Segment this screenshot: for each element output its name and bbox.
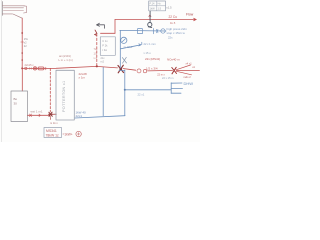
label: note near dashed riser: [94, 48, 99, 60]
legend box L2: top-right ratings table: [149, 1, 166, 11]
wire: blue riser x=124.8: [124, 70, 126, 116]
wire: DHW line y=89.8: [125, 89, 172, 91]
pump P2: blue pump circle: [121, 37, 127, 43]
node: junction dot y=63: [21, 59, 23, 61]
svg-text:x1.5: x1.5: [166, 6, 172, 10]
wire: blue drop from main x=120.3: [119, 30, 121, 68]
wire: boiler return horizontal y=115.3: [28, 114, 51, 116]
svg-text:78kW 1z: 78kW 1z: [46, 134, 59, 138]
svg-text:22x15 v: 22x15 v: [25, 63, 35, 67]
vent arrow A1: small red arrow up: [149, 15, 151, 20]
svg-text:L m + 1 (m): L m + 1 (m): [59, 58, 73, 62]
wire: cold feed diagonal from tank: [13, 14, 22, 18]
wire: boiler flow drop (red) x=22.3: [21, 68, 23, 91]
svg-text:P 2k: P 2k: [102, 44, 108, 48]
svg-text:sv 22x1: sv 22x1: [124, 45, 133, 49]
svg-text:wst 1 m1: wst 1 m1: [31, 110, 43, 114]
svg-text:x 1m: x 1m: [79, 76, 86, 80]
svg-text:P.14: P.14: [150, 2, 156, 6]
gauge G1: small circle: [76, 131, 81, 136]
valve V7: second circle: [143, 69, 146, 72]
valve V4: tick marks on return: [30, 114, 32, 117]
label: blue notes right: [167, 27, 188, 40]
valve V3: circle with cross: [33, 67, 36, 70]
svg-text:POTTERTON x1: POTTERTON x1: [62, 81, 66, 112]
wire: header down leg x=115: [114, 20, 116, 34]
label: auto air vent note (red, two rows): [59, 54, 73, 62]
wire: dashed red drop x=50.3: [49, 69, 51, 113]
node: tick y=42: [21, 41, 24, 43]
node: junction dot y=57: [21, 52, 23, 54]
wire: blue drop from flow pipe x=103: [102, 67, 104, 116]
svg-text:22 m x: 22 m x: [157, 74, 165, 77]
svg-text:m2: m2: [101, 61, 105, 64]
svg-text:x4 x1: x4 x1: [186, 61, 193, 65]
valve V9: box on cold main: [138, 29, 143, 34]
svg-text:1k.5: 1k.5: [170, 21, 176, 25]
wire: blue branch to right: [121, 45, 141, 49]
svg-text:22x: 22x: [168, 36, 173, 40]
label: radiator tail notes: [184, 61, 196, 79]
annotation: dark arrow pointer: [97, 23, 105, 28]
manifold M1: DHW fork: [171, 83, 182, 94]
svg-text:x 15 u: x 15 u: [144, 51, 152, 55]
meter M2: circle on cold main: [161, 29, 165, 33]
valve V6: motorised valve circle: [137, 69, 141, 73]
svg-text:=1kW+: =1kW+: [63, 133, 73, 137]
wire: red to radiator fork: [148, 69, 173, 72]
svg-text:DHW: DHW: [184, 81, 194, 86]
label: tiny notes under controller box: [101, 57, 106, 64]
gauge G2: dark vertical stroke and scribble under header: [148, 11, 152, 27]
wire: dashed red riser x=96.8: [96, 34, 98, 66]
cylinder C1: box: [56, 70, 74, 120]
svg-text:MS341: MS341: [46, 129, 57, 133]
valve V5: arrow on return: [38, 114, 41, 116]
svg-text:30: 30: [14, 102, 18, 106]
svg-text:m 1k x: m 1k x: [50, 121, 58, 125]
label box L1: MS341: [44, 128, 62, 138]
valve V11: small mark: [156, 29, 158, 33]
svg-text:22x [MS41]: 22x [MS41]: [145, 57, 160, 61]
svg-text:NOx40 m: NOx40 m: [167, 58, 180, 62]
node: junction on riser: [124, 89, 126, 91]
label: pipe size notes beside vertical pipe: [24, 37, 29, 48]
label: blue note right of cylinder bottom: [76, 111, 87, 119]
svg-text:rads 2: rads 2: [184, 75, 192, 79]
svg-text:Bo: Bo: [14, 97, 18, 101]
svg-text:t 3w: t 3w: [102, 48, 107, 52]
node: junction dot y=33: [21, 32, 23, 34]
wire: radiator tails: [176, 65, 200, 75]
svg-text:7x1: 7x1: [94, 48, 99, 51]
svg-text:22 x1: 22 x1: [138, 93, 145, 97]
valve V2: bowtie valve: [29, 67, 31, 70]
svg-text:Flow: Flow: [186, 12, 194, 16]
svg-text:1kW: 1kW: [150, 6, 156, 10]
svg-text:22 Cu: 22 Cu: [169, 15, 178, 19]
node: mixing junction blob: [118, 65, 124, 73]
svg-text:15x: 15x: [24, 37, 29, 41]
paper edge: [0, 0, 2, 142]
node: radiator junction X: [172, 67, 177, 74]
wire: cold main (blue) y=31: [120, 29, 166, 32]
svg-text:1/2 x 3/4: 1/2 x 3/4: [146, 66, 158, 70]
header tank T1 (top-left cistern): [2, 2, 26, 16]
valve V12: bowtie on blue drop: [122, 57, 126, 63]
node: cross junction blob near boiler return: [49, 112, 57, 120]
valve V10: tick: [153, 29, 155, 34]
arrow: header arrowhead: [194, 18, 198, 22]
wire: flow header (red) y=19.5: [115, 19, 193, 21]
valve V1: gate valve circle: [25, 67, 27, 69]
wire: flow pipe right section (red): [97, 66, 118, 68]
pump P1: rounded box on pipe: [38, 67, 44, 70]
svg-text:22 x 15 m: 22 x 15 m: [162, 76, 173, 80]
wire: cold feed to cylinder base (blue): [75, 116, 125, 118]
label: header notes: [169, 12, 194, 25]
node: junction at (22,68): [21, 67, 23, 69]
boiler B1: box: [11, 91, 28, 122]
controller U1: programmer box: [100, 37, 115, 56]
svg-text:1.5: 1.5: [158, 6, 162, 10]
label: boiler text: [14, 97, 18, 106]
valve V8: symbol at left end: [95, 30, 98, 36]
label: red note right of cylinder top: [79, 72, 88, 79]
wire: red horizontal y=33.3: [101, 32, 116, 34]
label: red text rows above right pipe: [145, 57, 180, 77]
svg-text:22 x 1 mm: 22 x 1 mm: [144, 42, 156, 46]
svg-text:C 1x: C 1x: [102, 39, 108, 43]
wire: vent/feed vertical pipe (red) x=22: [21, 18, 23, 68]
wire: main flow pipe (red) y=68.4: [22, 66, 96, 68]
svg-text:stop c 15x1 w: stop c 15x1 w: [167, 31, 186, 35]
